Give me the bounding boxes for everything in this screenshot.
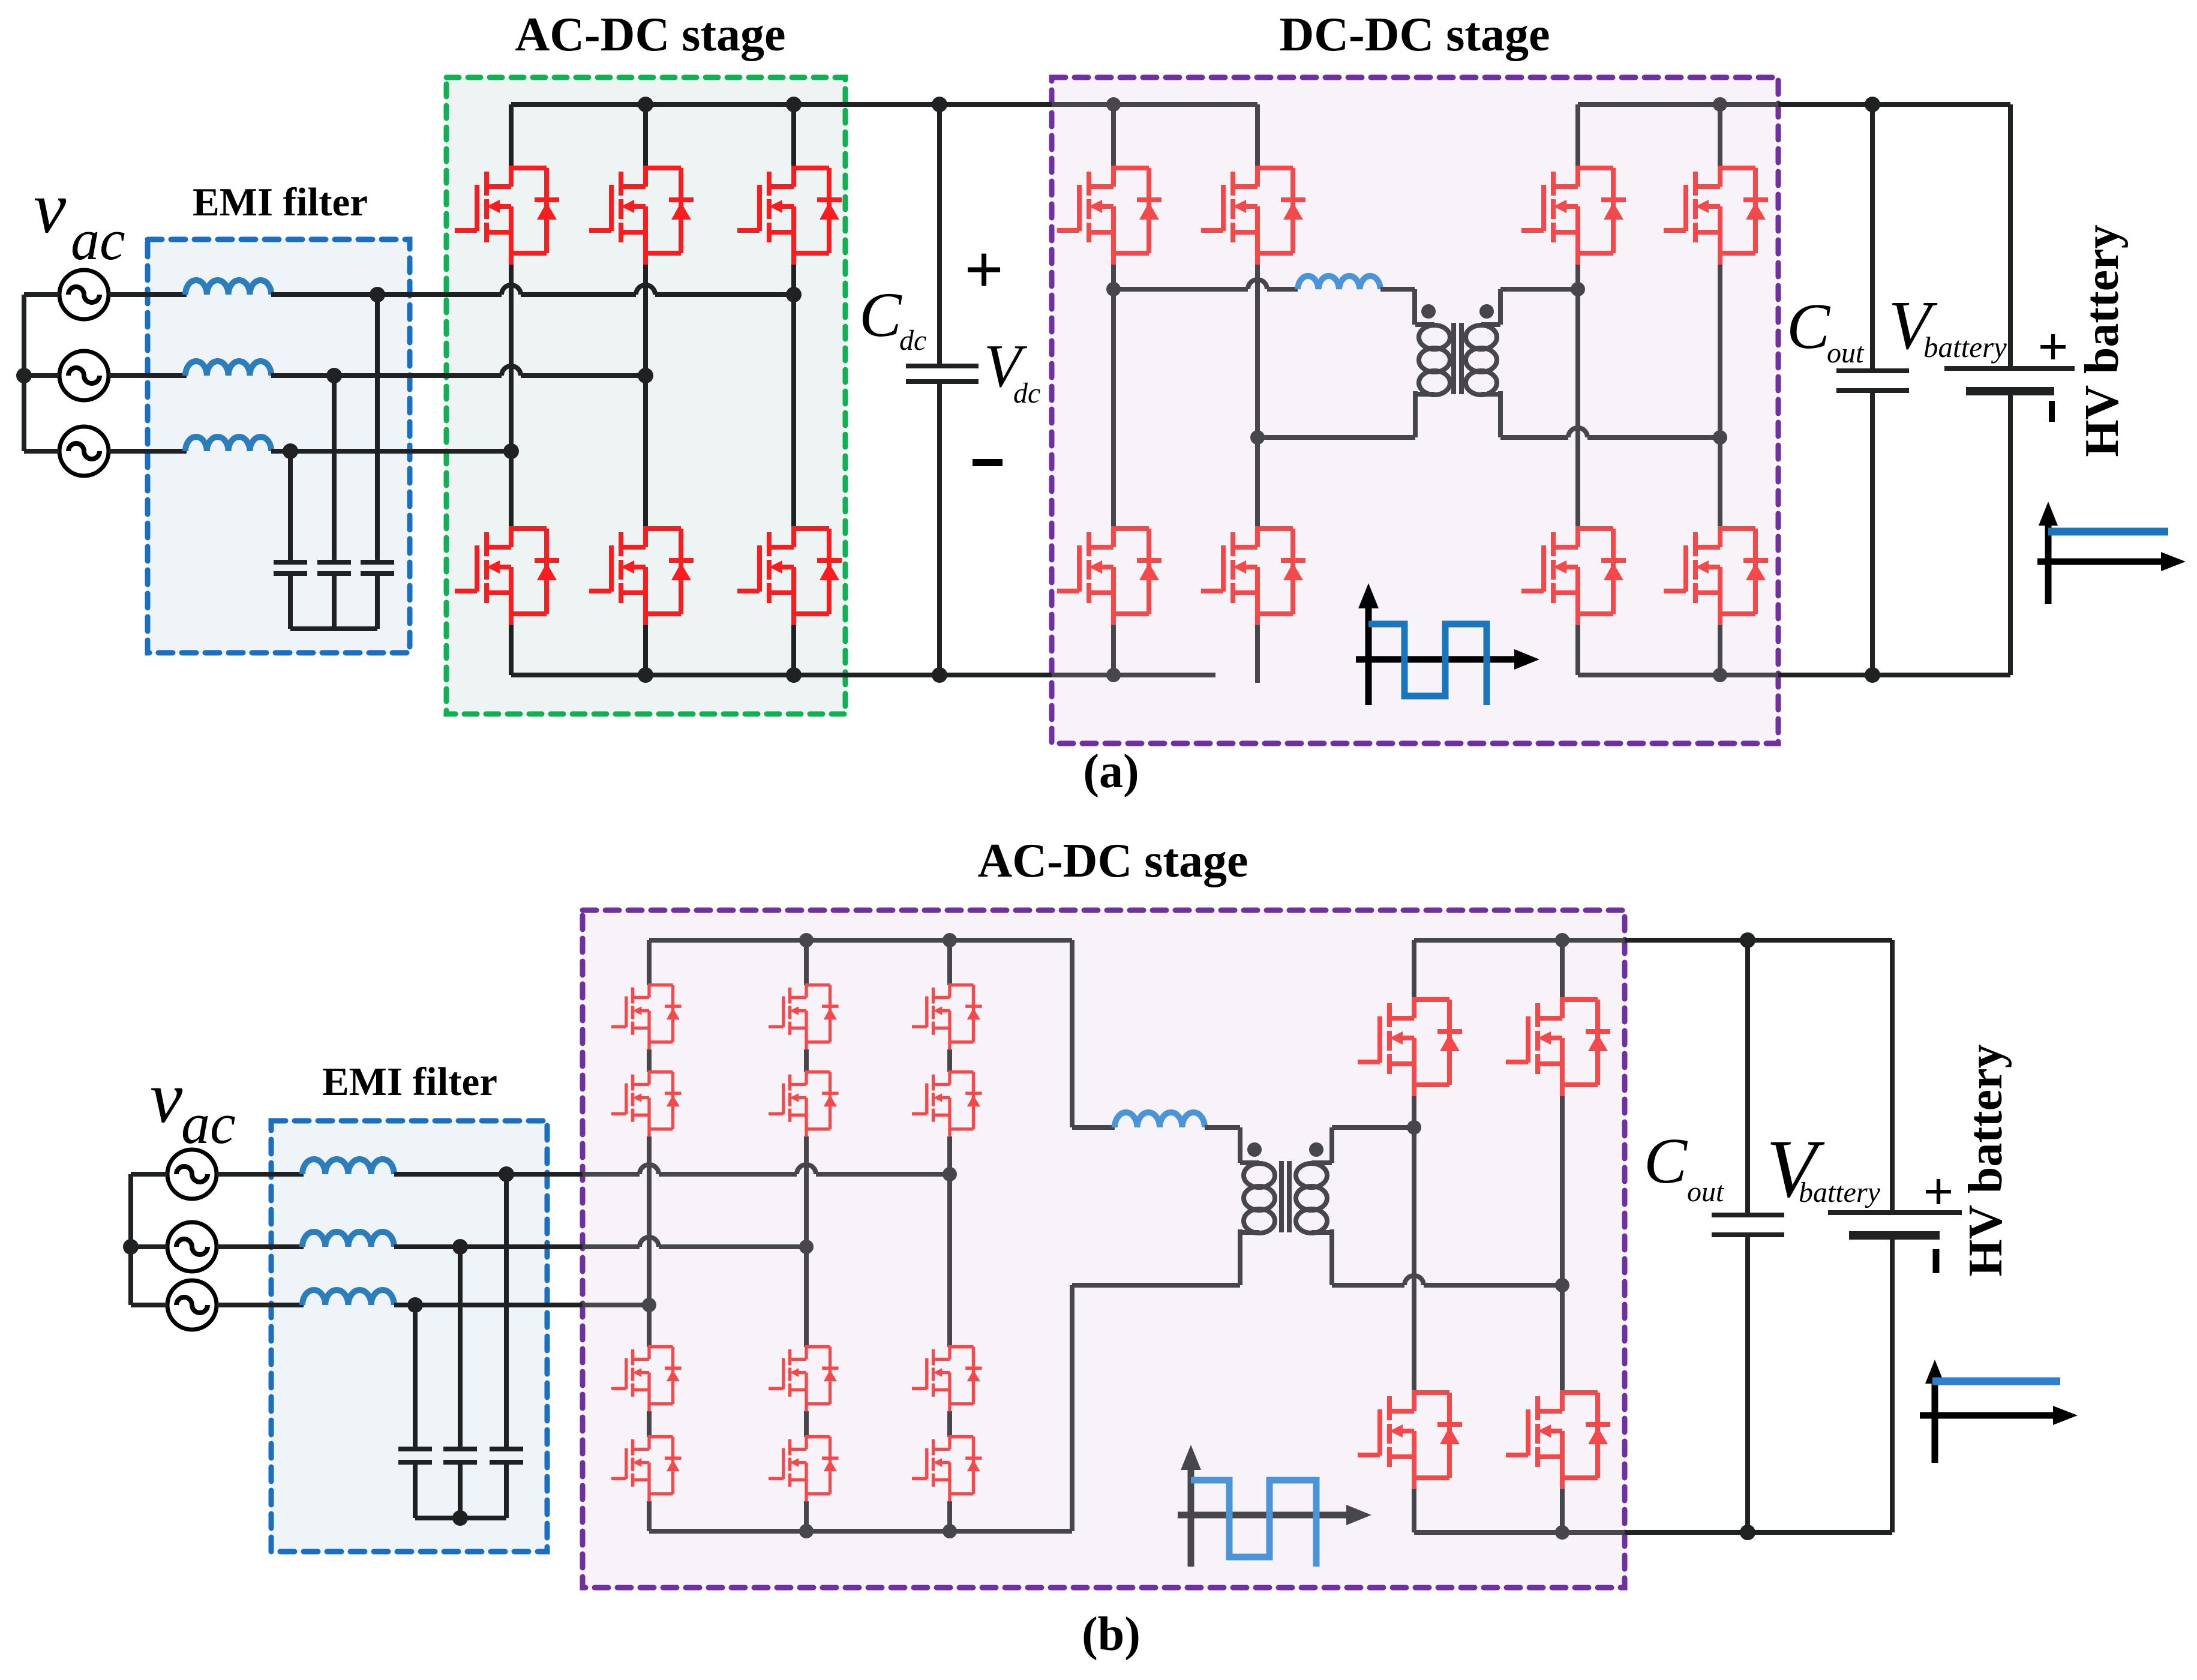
capacitor Cb2 branch: [443, 1247, 477, 1518]
transistor S6 acdc bottom leg3: [737, 526, 842, 625]
node phase1-cap3 (b): [499, 1166, 514, 1182]
node top bus dcdc leg1 (a): [1106, 97, 1121, 112]
transistor Q1 dcdc left top leg1: [1057, 166, 1161, 265]
node bottom bus Cout (a): [1865, 667, 1880, 683]
wire matrix leg2 (b): [804, 940, 809, 1531]
AC-DC stage box (a): [446, 77, 845, 714]
transistor S24 matrix leg2 lower B: [769, 1435, 839, 1502]
square wave icon (a) vertical axis: [1365, 597, 1372, 705]
hop secondary bottom over output leg1 (b): [1404, 1276, 1424, 1285]
capacitor Ca1 branch: [274, 451, 307, 629]
battery HV (a): [1944, 104, 2075, 675]
inductor Lr (b): [1115, 1112, 1205, 1127]
hop node A over leg2 (a): [1248, 280, 1267, 289]
wire top bus left (a) gray part: [1052, 102, 1257, 107]
wire Vb3 left: [131, 1303, 167, 1307]
ac source Vb2: [167, 1222, 217, 1271]
svg-text:out: out: [1687, 1176, 1725, 1208]
wire secondary top to output leg1 (b): [1332, 1125, 1414, 1130]
wire dcdc left leg2 (a): [1255, 104, 1260, 683]
node dcdc A (a): [1106, 282, 1121, 296]
capacitor Cdc: [906, 104, 979, 675]
transistor Q12 output top leg2 (b): [1506, 997, 1610, 1096]
wire leg2 acdc (a): [643, 104, 648, 675]
wire phase2 (b) gray part with hop: [583, 1244, 806, 1249]
transistor S3 acdc top leg2: [589, 166, 694, 265]
node phase2-leg2 (a): [638, 368, 653, 383]
wire Va3 to EMI (a): [109, 449, 187, 454]
wire dcdc right leg2' (a): [1718, 104, 1722, 675]
svg-text:(a): (a): [1083, 745, 1139, 798]
wire top bus right (a) gray part: [1578, 102, 1778, 107]
transformer T (a): [1415, 289, 1500, 437]
node bottom bus dcdc leg1 (a): [1106, 668, 1121, 682]
node top bus Cout (a): [1865, 97, 1880, 112]
transistor S11 matrix leg1 upper A: [611, 983, 682, 1050]
wire output leg2 (b): [1560, 940, 1565, 1532]
node bottom bus leg3 (a): [786, 667, 802, 683]
label minus battery (a): [2049, 401, 2055, 422]
transistor S14 matrix leg1 lower B: [611, 1435, 682, 1502]
transistor Q13 output bottom leg1 (b): [1358, 1390, 1462, 1489]
wire secondary bottom to leg2' (a) with hop: [1500, 435, 1720, 440]
node matrix top bus leg2 (b): [799, 933, 814, 947]
inductor La2: [185, 361, 271, 376]
wire top bus right (a) black part: [1778, 102, 2010, 107]
svg-text:EMI filter: EMI filter: [193, 180, 368, 224]
hop phase1 over leg1 (a): [502, 285, 521, 295]
node output top bus Cout (b): [1740, 932, 1755, 948]
svg-text:ac: ac: [71, 208, 125, 272]
node phase1-cap3 (a): [370, 287, 385, 302]
ac source Vb3: [167, 1280, 217, 1330]
hop phase2 over leg1 (b): [640, 1237, 659, 1247]
node bottom bus leg2 (a): [638, 667, 653, 683]
hop phase1 over leg1 (b): [640, 1165, 659, 1174]
node output bottom bus leg2 (b): [1555, 1525, 1569, 1540]
transistor S34 matrix leg3 lower B: [912, 1435, 982, 1502]
hop phase1 over leg2 (a): [636, 285, 655, 295]
battery current icon (a) horizontal arrow: [2037, 559, 2163, 565]
battery current icon (b) dc line: [1932, 1378, 2060, 1385]
wire output bottom bus (b) gray part: [1414, 1530, 1625, 1535]
wire leg3 acdc (a): [791, 104, 796, 675]
wire phase1 (b) gray part with hops: [583, 1172, 950, 1177]
svg-text:C: C: [859, 280, 902, 350]
DC-DC stage box (a): [1052, 77, 1778, 743]
wire phase3 (b) black part: [394, 1303, 583, 1307]
transistor S33 matrix leg3 lower A: [912, 1345, 982, 1412]
capacitor Cout (b): [1712, 940, 1784, 1532]
wire matrix bottom bus (b): [649, 1285, 1240, 1531]
wire output top bus (b) gray part: [1414, 938, 1625, 943]
ac source Va3: [59, 427, 109, 476]
inductor Lr (a): [1298, 276, 1380, 289]
label minus Vdc: [973, 459, 1003, 466]
svg-text:+: +: [1923, 1162, 1953, 1222]
transistor Q7 dcdc right top leg2': [1664, 166, 1768, 265]
square wave icon (b) vertical axis: [1188, 1459, 1194, 1567]
hop phase2 over leg1 (a): [502, 366, 521, 376]
transistor Q2 dcdc left bottom leg1: [1057, 526, 1161, 625]
node bottom bus Cdc (a): [932, 667, 947, 683]
square wave icon (b) horizontal axis: [1178, 1512, 1349, 1519]
capacitor Ca3 branch: [361, 295, 394, 629]
ac source Va2: [59, 351, 109, 400]
node phase2-leg2 (b): [799, 1240, 814, 1254]
wire source bus (b): [128, 1174, 133, 1305]
node top bus Cdc (a): [932, 97, 947, 112]
wire cap bottom link (b): [415, 1516, 506, 1520]
transistor Q6 dcdc right bottom leg1': [1521, 526, 1626, 625]
square wave icon (a) waveform: [1368, 624, 1487, 705]
wire phase3 (a): [271, 449, 511, 454]
polarity dot primary (a): [1421, 304, 1436, 319]
hop phase1 over leg2 (b): [797, 1165, 816, 1174]
node matrix bottom bus leg3 (b): [943, 1524, 957, 1538]
svg-text:dc: dc: [899, 325, 926, 356]
node phase2-cap2 (b): [452, 1239, 468, 1255]
wire matrix leg3 (b): [947, 940, 952, 1531]
transistor Q5 dcdc right top leg1': [1521, 166, 1626, 265]
node phase3-cap1 (b): [407, 1297, 423, 1313]
wire matrix leg1 (b): [647, 940, 652, 1531]
battery current icon (a) vertical arrow: [2045, 515, 2052, 604]
node phase3-leg1 (b): [642, 1298, 656, 1312]
AC-DC stage box (b): [583, 910, 1625, 1588]
transistor S4 acdc bottom leg2: [589, 526, 694, 625]
wire matrix top bus (b): [649, 940, 1115, 1127]
polarity dot primary (b): [1247, 1142, 1262, 1157]
transistor Q8 dcdc right bottom leg2': [1664, 526, 1768, 625]
battery current icon (a) dc line: [2048, 528, 2168, 536]
wire phase2 (a) with hop at leg1: [271, 373, 646, 378]
wire inductor to transformer (b): [1205, 1125, 1240, 1130]
svg-text:dc: dc: [1013, 377, 1040, 409]
transistor Q4 dcdc left bottom leg2: [1201, 526, 1305, 625]
transistor S1 acdc top leg1: [455, 166, 559, 265]
node top bus leg3 (a): [786, 97, 802, 112]
wire Vb1 to EMI (b): [217, 1172, 304, 1177]
wire secondary bottom to output leg2 (b) with hop: [1332, 1283, 1562, 1288]
wire output top bus (b) black part: [1625, 938, 1892, 943]
wire source bus (a): [22, 295, 26, 451]
wire bottom bus left (a) gray part: [1052, 673, 1215, 677]
node dcdc B (a): [1250, 430, 1265, 445]
node bottom bus leg2' (a): [1713, 668, 1727, 682]
node phase1-leg3 (a): [786, 287, 802, 302]
svg-text:EMI filter: EMI filter: [322, 1060, 497, 1104]
wire phase1 (a) with hops at legs 1,2: [271, 292, 794, 297]
polarity dot secondary (a): [1479, 304, 1494, 319]
wire Vb1 left: [131, 1172, 167, 1177]
wire Vb3 to EMI (b): [217, 1303, 304, 1307]
transistor S13 matrix leg1 lower A: [611, 1345, 682, 1412]
capacitor Cb3 branch: [490, 1174, 523, 1518]
capacitor Cb1 branch: [398, 1305, 432, 1518]
capacitor Cout (a): [1836, 104, 1909, 675]
wire Vb2 to EMI (b): [217, 1244, 304, 1249]
wire Va1 left: [24, 292, 59, 297]
svg-text:out: out: [1827, 337, 1865, 369]
inductor Lb3: [302, 1290, 394, 1305]
transistor S31 matrix leg3 upper A: [912, 983, 982, 1050]
transistor Q14 output bottom leg2 (b): [1506, 1390, 1610, 1489]
node phase1-leg3 (b): [943, 1167, 957, 1181]
wire Va2 to EMI (a): [109, 373, 187, 378]
svg-text:ac: ac: [181, 1091, 236, 1156]
svg-text:C: C: [1787, 291, 1831, 362]
svg-text:AC-DC stage: AC-DC stage: [977, 835, 1248, 887]
node matrix bottom bus leg2 (b): [799, 1524, 814, 1538]
node cap bottom link (b): [452, 1510, 468, 1526]
label minus battery (b): [1933, 1249, 1940, 1273]
svg-text:v: v: [150, 1057, 183, 1138]
wire inductor to transformer (a): [1380, 287, 1415, 292]
node output top bus leg2 (b): [1555, 933, 1569, 947]
wire phase2 (b) black part: [394, 1244, 583, 1249]
node secondary top output leg1 (b): [1407, 1120, 1421, 1135]
wire phase3 (b) gray part: [583, 1303, 649, 1307]
node top bus leg2 (a): [638, 97, 653, 112]
transistor S2 acdc bottom leg1: [455, 526, 559, 625]
svg-text:HV battery: HV battery: [2076, 224, 2129, 457]
wire secondary top to leg1' (a): [1500, 287, 1578, 292]
wire node B to transformer (a): [1257, 435, 1415, 440]
EMI filter box (a): [148, 239, 410, 653]
transistor Q3 dcdc left top leg2: [1201, 166, 1305, 265]
wire phase1 (b) black part: [394, 1172, 583, 1177]
inductor Lb1: [302, 1159, 394, 1174]
battery HV (b): [1828, 940, 1962, 1532]
node secondary top leg1' (a): [1571, 282, 1585, 296]
svg-text:AC-DC stage: AC-DC stage: [515, 8, 785, 61]
square wave icon (a) horizontal axis: [1356, 656, 1517, 663]
transistor S32 matrix leg3 upper B: [912, 1070, 982, 1137]
polarity dot secondary (b): [1309, 1142, 1323, 1157]
battery current icon (b) horizontal arrow: [1920, 1412, 2055, 1419]
wire bottom bus left (a) black part: [511, 673, 1052, 677]
square wave icon (b) waveform: [1191, 1480, 1316, 1567]
inductor La1: [185, 280, 271, 295]
transistor S12 matrix leg1 upper B: [611, 1070, 682, 1137]
wire dcdc right leg1' (a): [1575, 104, 1580, 675]
svg-text:+: +: [964, 232, 1004, 308]
wire dcdc left leg1 (a): [1111, 104, 1116, 675]
transistor S21 matrix leg2 upper A: [769, 983, 839, 1050]
wire bottom bus right (a) black part: [1778, 673, 2010, 677]
node source bus mid (a): [16, 368, 32, 383]
wire Va2 left: [24, 373, 59, 378]
wire Vb2 left: [131, 1244, 167, 1249]
wire node A to inductor (a): [1113, 287, 1298, 292]
node phase3-cap1 (a): [283, 443, 298, 459]
node source bus mid (b): [123, 1239, 139, 1255]
inductor La3: [185, 437, 271, 451]
svg-text:v: v: [34, 167, 67, 248]
ac source Va1: [59, 270, 109, 319]
transistor S22 matrix leg2 upper B: [769, 1070, 839, 1137]
transformer T (b): [1240, 1127, 1332, 1285]
node matrix top bus leg3 (b): [943, 933, 957, 947]
wire Va1 to EMI (a): [109, 292, 187, 297]
wire leg1 acdc (a): [509, 104, 514, 675]
hop secondary bottom over leg1' (a): [1568, 428, 1587, 437]
svg-text:+: +: [2037, 317, 2068, 377]
wire output leg1 (b): [1412, 940, 1416, 1532]
svg-text:HV battery: HV battery: [1959, 1044, 2012, 1276]
wire Va3 left: [24, 449, 59, 454]
svg-text:(b): (b): [1082, 1608, 1140, 1661]
battery current icon (b) vertical arrow: [1932, 1373, 1938, 1463]
svg-text:C: C: [1644, 1126, 1688, 1197]
wire bottom bus right (a) gray part: [1578, 673, 1778, 677]
transistor S23 matrix leg2 lower A: [769, 1345, 839, 1412]
node phase3-leg1 (a): [503, 443, 519, 459]
ac source Vb1: [167, 1150, 217, 1199]
wire top bus left (a) black part: [511, 102, 1052, 107]
transistor S5 acdc top leg3: [737, 166, 842, 265]
svg-text:battery: battery: [1923, 331, 2007, 364]
node top bus leg2' (a): [1713, 97, 1727, 112]
wire cap bottom link (a): [290, 626, 377, 631]
inductor Lb2: [302, 1232, 394, 1247]
wire output bottom bus (b) black part: [1625, 1530, 1892, 1535]
node phase2-cap2 (a): [326, 368, 342, 383]
EMI filter box (b): [271, 1121, 547, 1552]
capacitor Ca2 branch: [317, 376, 351, 629]
svg-text:DC-DC stage: DC-DC stage: [1279, 8, 1550, 61]
svg-text:battery: battery: [1799, 1177, 1881, 1208]
node secondary bottom leg2' (a): [1713, 430, 1727, 445]
node secondary bottom output leg2 (b): [1555, 1278, 1569, 1292]
node output bottom bus Cout (b): [1740, 1525, 1755, 1540]
transistor Q11 output top leg1 (b): [1358, 997, 1462, 1096]
